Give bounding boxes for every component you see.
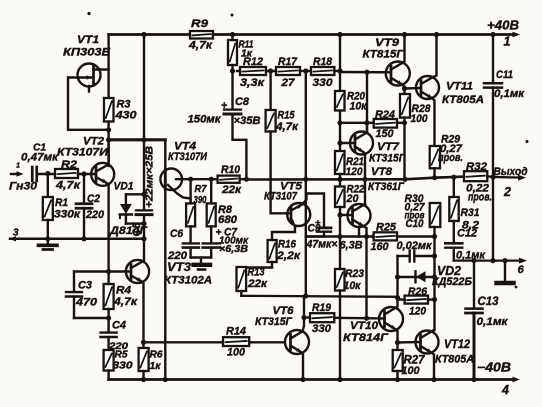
svg-text:С5: С5 [131, 222, 143, 237]
svg-text:С4: С4 [112, 320, 127, 332]
svg-text:150: 150 [376, 128, 395, 140]
svg-text:100: 100 [402, 365, 421, 377]
svg-text:КТ3107И: КТ3107И [168, 151, 208, 163]
svg-text:47мк×: 47мк× [306, 239, 338, 251]
svg-text:R4: R4 [116, 285, 132, 297]
svg-text:VT10: VT10 [350, 320, 379, 332]
svg-text:100: 100 [227, 347, 246, 359]
svg-text:С6: С6 [170, 228, 184, 240]
svg-text:4,7к: 4,7к [275, 121, 299, 133]
svg-text:390: 390 [194, 195, 207, 206]
svg-text:R7: R7 [195, 184, 207, 195]
svg-text:R25: R25 [376, 222, 397, 234]
svg-text:R9: R9 [191, 18, 209, 30]
svg-text:6,3В: 6,3В [340, 240, 363, 252]
svg-text:4,7к: 4,7к [188, 40, 214, 52]
svg-text:VT12: VT12 [444, 337, 470, 351]
svg-text:×6,3В: ×6,3В [219, 244, 248, 255]
svg-text:4,7к: 4,7к [113, 296, 139, 308]
svg-text:R15: R15 [278, 110, 296, 122]
svg-text:R14: R14 [226, 326, 247, 338]
svg-text:4,7к: 4,7к [55, 180, 82, 192]
svg-text:С9: С9 [308, 223, 321, 235]
svg-text:VT8: VT8 [371, 166, 393, 178]
svg-text:С2: С2 [87, 193, 101, 205]
svg-text:КД522Б: КД522Б [432, 276, 472, 288]
svg-text:+40В: +40В [487, 19, 519, 33]
svg-text:0,1мк: 0,1мк [494, 88, 525, 100]
svg-text:430: 430 [114, 110, 137, 122]
svg-text:22к: 22к [247, 278, 268, 290]
svg-text:VT9: VT9 [375, 37, 400, 49]
svg-text:6: 6 [518, 264, 525, 276]
svg-text:3,3к: 3,3к [240, 77, 265, 89]
svg-text:R26: R26 [408, 286, 428, 298]
svg-text:220: 220 [85, 209, 105, 221]
svg-text:R13: R13 [248, 267, 266, 279]
svg-text:VT7: VT7 [377, 141, 400, 153]
svg-text:22к: 22к [221, 184, 242, 196]
svg-text:+22мк×25В: +22мк×25В [145, 146, 156, 208]
svg-text:пров.: пров. [468, 192, 492, 204]
svg-text:С10: С10 [406, 218, 424, 230]
svg-text:100: 100 [411, 113, 429, 125]
svg-text:4: 4 [501, 383, 509, 397]
svg-text:2: 2 [503, 185, 511, 199]
svg-text:1: 1 [504, 35, 511, 49]
svg-text:330: 330 [113, 360, 134, 371]
svg-text:10к: 10к [350, 101, 368, 113]
svg-text:R2: R2 [61, 159, 78, 171]
svg-text:27: 27 [280, 77, 295, 89]
svg-text:Выход: Выход [494, 166, 528, 178]
svg-text:КП303Е: КП303Е [63, 47, 111, 59]
svg-text:+: + [221, 100, 227, 112]
svg-text:R23: R23 [345, 268, 365, 280]
svg-text:R18: R18 [313, 56, 333, 68]
svg-text:330к: 330к [54, 209, 81, 221]
svg-text:С8: С8 [235, 96, 250, 108]
svg-text:КТ3107: КТ3107 [264, 191, 298, 203]
svg-text:КТ805А: КТ805А [435, 354, 474, 366]
svg-text:КТ805А: КТ805А [442, 94, 484, 106]
svg-text:−40В: −40В [477, 361, 511, 375]
svg-text:Гн30: Гн30 [9, 181, 38, 193]
svg-text:470: 470 [75, 297, 98, 309]
svg-text:VT1: VT1 [77, 34, 99, 46]
svg-text:10к: 10к [344, 280, 362, 292]
svg-text:С11: С11 [496, 69, 513, 81]
svg-text:КТ814Г: КТ814Г [343, 332, 389, 344]
svg-text:VD1: VD1 [114, 181, 134, 193]
svg-text:330: 330 [313, 77, 334, 89]
svg-text:3: 3 [13, 227, 19, 238]
svg-text:КТ3102А: КТ3102А [164, 275, 212, 287]
svg-text:220: 220 [167, 250, 188, 262]
svg-text:R16: R16 [278, 239, 297, 251]
svg-text:0,1мк: 0,1мк [477, 316, 509, 328]
svg-text:150мк: 150мк [188, 114, 222, 126]
svg-text:R1: R1 [55, 197, 68, 209]
svg-text:R32: R32 [466, 161, 488, 173]
svg-text:С13: С13 [478, 294, 499, 308]
svg-text:×35В: ×35В [234, 115, 261, 127]
svg-text:С3: С3 [78, 280, 93, 292]
svg-text:0,47мк: 0,47мк [21, 152, 59, 164]
svg-text:КТ3107И: КТ3107И [57, 147, 109, 159]
svg-text:КТ815Г: КТ815Г [363, 49, 405, 61]
svg-text:R12: R12 [243, 56, 264, 68]
svg-text:R19: R19 [312, 302, 332, 314]
svg-text:1к: 1к [150, 361, 162, 372]
svg-text:R6: R6 [150, 349, 163, 360]
svg-text:VT11: VT11 [446, 81, 473, 93]
svg-text:R24: R24 [375, 109, 396, 121]
svg-text:0,02мк: 0,02мк [397, 240, 433, 252]
svg-text:120: 120 [409, 306, 427, 318]
svg-text:1: 1 [16, 160, 20, 169]
svg-text:R10: R10 [221, 164, 241, 176]
svg-text:VT3: VT3 [167, 260, 191, 274]
svg-text:330: 330 [312, 323, 332, 335]
svg-text:R31: R31 [461, 207, 480, 219]
svg-text:2,2к: 2,2к [276, 250, 302, 262]
svg-text:120: 120 [346, 166, 364, 178]
svg-text:160: 160 [371, 241, 390, 253]
svg-text:КТ315Г: КТ315Г [369, 153, 406, 165]
svg-text:пров.: пров. [438, 152, 463, 164]
svg-text:R5: R5 [115, 349, 128, 360]
svg-text:С12: С12 [457, 228, 478, 240]
svg-text:680: 680 [218, 214, 238, 226]
svg-text:КТ315Г: КТ315Г [255, 316, 293, 328]
svg-text:R17: R17 [278, 56, 298, 68]
svg-text:КТ361Г: КТ361Г [368, 181, 405, 193]
